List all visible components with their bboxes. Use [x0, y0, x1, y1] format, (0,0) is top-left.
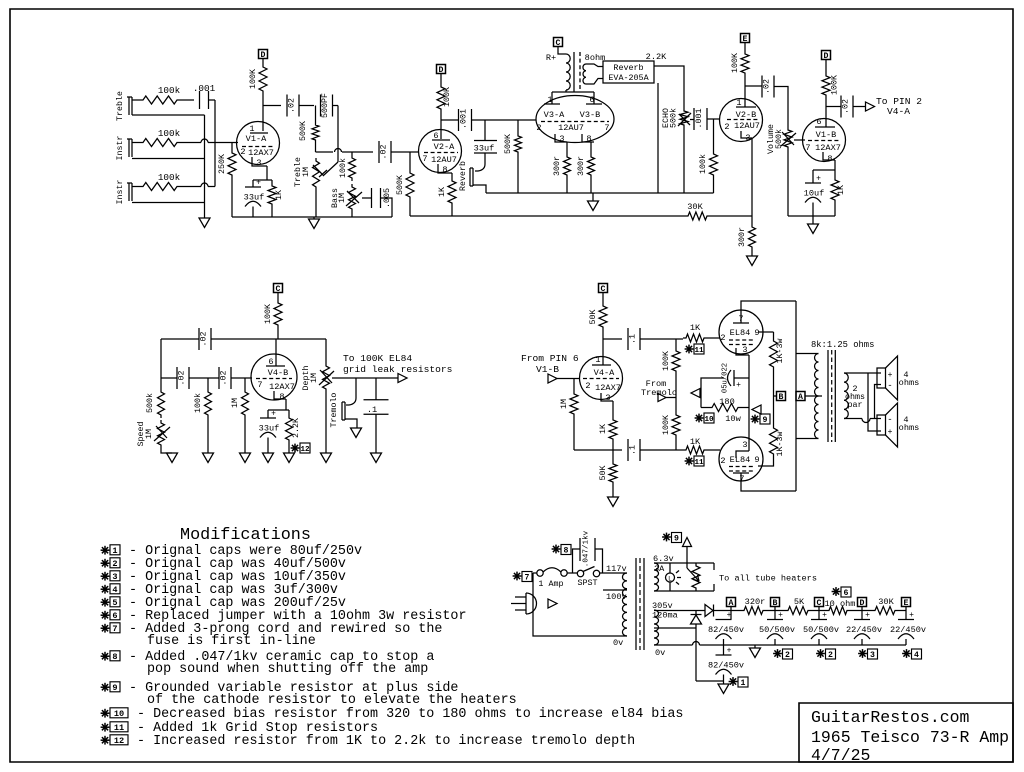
pot Volume 500k: [784, 127, 792, 150]
capacitor 33uf reverb send: [484, 120, 486, 141]
marker 4 mod list: [104, 585, 106, 594]
ground cap2: [723, 681, 725, 684]
resistor 1M V4-A grid: [573, 379, 575, 392]
tube V2-A 12AU7: [419, 130, 462, 173]
capacitor .02 coupling V1-A: [286, 95, 288, 117]
resistor 100K plate V1-B: [822, 73, 830, 98]
svg-text:1M: 1M: [338, 193, 347, 203]
wire .02 to arrow: [853, 106, 866, 108]
tube V2-B 12AU7: [720, 99, 763, 142]
wire V1-B bottom bus: [788, 215, 835, 217]
wire 100K to plate junction V2-B: [744, 76, 746, 107]
marker 7 mod list: [104, 624, 106, 633]
svg-text:6: 6: [844, 589, 849, 598]
wire .001 to V3 grid: [472, 119, 537, 121]
svg-text:100k: 100k: [338, 158, 348, 178]
wire J3 sleeve: [132, 202, 205, 204]
svg-text:- Increased resistor from 1K t: - Increased resistor from 1K to 2.2k to …: [137, 734, 635, 749]
svg-text:2: 2: [720, 333, 725, 343]
marker 2 mod B: [777, 649, 779, 658]
wire .1 to 1K grid stop top: [640, 338, 683, 340]
svg-text:1965 Teisco 73-R Amp: 1965 Teisco 73-R Amp: [811, 728, 1009, 747]
resistor 1K cathode V1-B: [834, 170, 836, 177]
AC plug: [525, 593, 527, 614]
wire rail A-B: [766, 610, 785, 612]
marker 10 mod: [698, 414, 700, 423]
winding 6.3v: [654, 563, 659, 591]
ground .1 tremolo: [371, 453, 382, 463]
wire echo pot to bus: [683, 128, 685, 193]
svg-text:12AX7: 12AX7: [248, 148, 274, 158]
marker 9 mod: [754, 415, 756, 424]
marker 8 mod: [555, 545, 557, 554]
wire doubler to cap2: [696, 680, 724, 682]
svg-text:50/500v: 50/500v: [759, 625, 795, 635]
pot Depth 1M: [325, 339, 327, 363]
svg-text:+: +: [865, 611, 870, 620]
node C supply tremolo: [274, 284, 283, 293]
svg-text:V3-A: V3-A: [544, 110, 565, 120]
svg-text:100K: 100K: [264, 304, 273, 324]
svg-text:250K: 250K: [218, 154, 227, 174]
marker 3 mod D: [862, 649, 864, 658]
wire reverb jack sleeve: [473, 185, 486, 193]
svg-text:.02: .02: [288, 98, 297, 113]
resistor 5K rail: [785, 607, 811, 615]
capacitor .1 PI top: [627, 328, 629, 350]
pot Treble 1M: [313, 158, 320, 190]
resistor 1K cathode V1-A: [271, 180, 273, 183]
capacitor .02 osc 1: [161, 377, 177, 379]
wire D1 to rail: [714, 610, 742, 612]
capacitor 22/450v E: [905, 611, 907, 620]
svg-text:7: 7: [604, 123, 609, 133]
svg-text:-: -: [887, 381, 892, 391]
svg-text:Treble: Treble: [115, 91, 125, 121]
node E rail: [902, 598, 911, 607]
svg-text:6: 6: [816, 117, 821, 127]
svg-text:EVA-205A: EVA-205A: [608, 73, 649, 83]
svg-text:+: +: [736, 381, 741, 390]
wire 1K to EL84 bottom grid: [707, 449, 720, 451]
wire .1 to 1K grid stop bottom: [640, 449, 683, 451]
wire J1 sleeve: [132, 114, 205, 116]
svg-text:100k: 100k: [158, 172, 181, 183]
wire V3-B cathode: [590, 142, 592, 154]
svg-text:EL84: EL84: [730, 328, 751, 338]
svg-text:5: 5: [112, 598, 117, 608]
wire depth pot to ground: [325, 392, 327, 453]
svg-text:2: 2: [828, 651, 833, 660]
resistor 100k input 2: [140, 139, 180, 147]
resistor 100K plate V2-A: [437, 84, 445, 112]
wire doubler down: [695, 628, 697, 681]
wire tank to echo pot: [654, 66, 684, 108]
svg-text:1K: 1K: [275, 190, 284, 200]
pilot lamp: [669, 563, 671, 573]
tube EL84 bottom: [719, 437, 763, 481]
bass wiper: [346, 192, 362, 206]
capacitor .02 tremolo fb: [198, 328, 200, 350]
svg-text:500K: 500K: [396, 175, 405, 195]
capacitor 33uf cathode V4-B: [267, 410, 269, 418]
svg-text:-: -: [887, 415, 892, 425]
jack Tremolo: [355, 378, 357, 398]
resistor 100K plate V2-B: [741, 51, 749, 76]
wire tank return to bus: [657, 83, 659, 193]
wire E to 100K: [744, 43, 746, 52]
svg-text:+: +: [727, 647, 732, 656]
svg-text:100k: 100k: [698, 154, 708, 174]
svg-text:12AU7: 12AU7: [431, 155, 457, 165]
wire parallel minus link: [875, 385, 882, 419]
svg-text:100K: 100K: [662, 351, 671, 371]
wire output plates vertical: [795, 301, 797, 491]
wire volume wiper to V1-B grid: [794, 139, 805, 141]
wire cathode network: [253, 179, 272, 181]
svg-text:120ma: 120ma: [652, 611, 678, 621]
wire rail B-C: [811, 610, 826, 612]
svg-text:SPST: SPST: [577, 578, 597, 588]
marker 8 mod list: [104, 652, 106, 661]
wire .005 to bus: [381, 198, 393, 217]
svg-text:1M: 1M: [560, 399, 569, 409]
resistor 180 bias: [709, 404, 741, 412]
capacitor 50/500v B: [774, 611, 776, 620]
svg-text:100v: 100v: [606, 592, 627, 602]
svg-text:7: 7: [805, 143, 810, 153]
svg-text:8: 8: [112, 652, 117, 662]
reverb transformer secondary: [583, 64, 586, 84]
wire osc cap to grid V4-B: [231, 377, 252, 379]
svg-text:100k: 100k: [158, 85, 181, 96]
svg-text:+: +: [816, 175, 821, 184]
diode D2: [691, 615, 702, 624]
svg-text:2: 2: [785, 651, 790, 660]
svg-text:4/7/25: 4/7/25: [811, 746, 870, 765]
tube EL84 top: [719, 310, 763, 354]
arrow to EL84 grid resistors: [398, 374, 407, 383]
node A plate supply: [796, 392, 805, 401]
capacitor 500PF treble: [320, 95, 322, 117]
speaker top 4 ohms: [877, 368, 886, 388]
resistor 100k tone mix: [351, 152, 353, 155]
capacitor bias bypass 05u/022: [734, 377, 749, 379]
wire treble pot to bus: [315, 190, 317, 217]
svg-text:500k: 500k: [669, 108, 679, 128]
svg-text:2: 2: [536, 123, 541, 133]
wire fuse to switch: [567, 572, 578, 574]
wire V2-A bottom bus: [410, 215, 685, 217]
svg-text:33uf: 33uf: [259, 424, 280, 434]
wire tremolo output: [332, 377, 398, 379]
wire secondary to reverb tank: [586, 64, 603, 67]
svg-text:1K: 1K: [599, 424, 608, 434]
pot Speed 1M: [158, 420, 165, 448]
wire secondary top to speakers: [844, 372, 881, 374]
svg-text:R+: R+: [546, 53, 556, 63]
wire C to 50K: [602, 293, 604, 304]
wire .02 to node: [299, 105, 314, 107]
svg-text:V4-A: V4-A: [594, 368, 615, 378]
svg-text:.047/1kv: .047/1kv: [583, 530, 591, 567]
marker 10 mod list: [104, 709, 106, 718]
svg-text:ohms: ohms: [899, 378, 920, 388]
svg-text:12AX7: 12AX7: [595, 383, 621, 393]
svg-text:8: 8: [564, 547, 569, 556]
svg-text:100K: 100K: [731, 53, 740, 73]
wire .02 to V2-A grid: [391, 151, 419, 153]
svg-text:50K: 50K: [589, 310, 598, 325]
svg-text:500K: 500K: [299, 121, 308, 141]
ground 33uf V4-B: [263, 453, 274, 463]
wire hum pot stem: [686, 547, 688, 569]
resistor 50K tail bottom: [609, 461, 617, 485]
svg-text:82/450v: 82/450v: [708, 625, 744, 635]
svg-text:10 ohm: 10 ohm: [825, 599, 856, 609]
wire plate junction V2-A row: [441, 119, 458, 121]
wire bias cap left: [701, 378, 724, 408]
svg-text:A: A: [798, 393, 803, 402]
marker 4 mod E: [906, 649, 908, 658]
svg-text:100K: 100K: [831, 75, 840, 95]
wire plate lead V4-B: [275, 339, 277, 366]
svg-text:100K: 100K: [443, 87, 452, 107]
svg-text:V2-B: V2-B: [736, 110, 757, 120]
node B rail: [771, 598, 780, 607]
power transformer core: [635, 558, 637, 650]
node B screen supply: [774, 395, 777, 397]
svg-text:fuse is first in-line: fuse is first in-line: [147, 634, 316, 649]
svg-text:3: 3: [870, 651, 875, 660]
node D supply V1-B: [822, 51, 831, 60]
svg-text:2.2K: 2.2K: [292, 418, 301, 438]
svg-text:V1-B: V1-B: [816, 130, 837, 140]
heater bracket: [713, 563, 715, 570]
ground speed pot: [167, 453, 178, 463]
capacitor 33uf cathode V1-A: [252, 180, 254, 187]
title box: [799, 703, 1013, 762]
svg-text:100k: 100k: [158, 128, 181, 139]
svg-text:1M: 1M: [302, 167, 311, 177]
wire V4-A cathode: [612, 401, 614, 417]
svg-text:+: +: [909, 611, 914, 620]
wire tremolo fb row: [161, 338, 199, 340]
resistor 500K V3 grid leak: [517, 120, 519, 133]
svg-text:3A: 3A: [654, 564, 665, 574]
wire tremolo jack ground: [345, 419, 357, 428]
svg-text:1M: 1M: [145, 429, 154, 439]
svg-text:82/450v: 82/450v: [708, 661, 744, 671]
svg-text:To all tube heaters: To all tube heaters: [719, 574, 817, 584]
svg-text:.001: .001: [193, 83, 216, 94]
svg-text:Reverb: Reverb: [613, 63, 643, 73]
wire plate lead V4-A: [602, 339, 604, 365]
svg-text:ohms: ohms: [899, 423, 920, 433]
svg-text:11: 11: [114, 723, 124, 733]
svg-text:6: 6: [112, 611, 117, 621]
jack J3 Instr: [128, 183, 130, 201]
capacitor 10uf cathode V1-B: [812, 170, 814, 183]
resistor 1K-3w top: [773, 332, 775, 338]
wire HV center tap: [654, 627, 696, 629]
svg-text:33uf: 33uf: [244, 193, 265, 203]
svg-text:7: 7: [257, 380, 262, 390]
svg-text:Reverb: Reverb: [458, 161, 468, 191]
resistor 100k input 3: [140, 183, 180, 191]
reverb transformer primary: [566, 54, 570, 90]
svg-text:50/500v: 50/500v: [803, 625, 839, 635]
wire plate junction to .02: [263, 105, 281, 107]
hum wiper: [687, 568, 699, 581]
svg-text:22/450v: 22/450v: [846, 625, 882, 635]
svg-text:V4-A: V4-A: [887, 106, 910, 117]
svg-text:0v: 0v: [655, 648, 665, 658]
wire treble top vertical: [337, 106, 339, 163]
svg-text:1: 1: [112, 546, 117, 556]
svg-text:3: 3: [742, 345, 747, 355]
wire J3 to junction with hop: [180, 186, 201, 188]
wire V4-B cathode: [285, 399, 287, 410]
svg-text:3: 3: [742, 440, 747, 450]
marker 11 mod list: [104, 723, 106, 732]
resistor 300r V3-B: [588, 154, 595, 178]
svg-text:2: 2: [112, 559, 117, 569]
svg-text:2: 2: [720, 456, 725, 466]
tap 100v: [603, 589, 627, 591]
svg-text:1K: 1K: [690, 437, 701, 447]
svg-text:180: 180: [719, 397, 734, 407]
wire D to 100K: [825, 60, 827, 74]
svg-text:7: 7: [525, 574, 530, 583]
resistor 1K cathode V2-A: [448, 178, 456, 206]
wire 100K to plate junction V4-B: [277, 328, 279, 339]
resistor 50K plate V4-A: [599, 303, 607, 330]
wire V1-B cathode: [834, 160, 836, 170]
capacitor 82/450v first: [730, 611, 732, 620]
wire 50K to plate junction: [602, 330, 604, 339]
svg-text:of the cathode resistor to ele: of the cathode resistor to elevate the h…: [147, 693, 517, 708]
ground 100k osc: [203, 453, 214, 463]
marker 11 mod bottom: [688, 457, 690, 466]
node D rail: [858, 598, 867, 607]
wire parallel plus link: [868, 373, 881, 431]
resistor 100K divider top: [675, 339, 677, 348]
svg-text:+: +: [256, 179, 261, 188]
wire 33uf to reverb jack: [484, 153, 486, 164]
resistor 320r rail: [741, 607, 766, 615]
resistor 100K divider bottom: [675, 397, 677, 412]
capacitor .005 bass: [371, 188, 373, 208]
svg-text:2.2K: 2.2K: [646, 52, 667, 62]
OT primary coil: [815, 354, 819, 439]
resistor 1K-3w bottom: [770, 425, 778, 457]
wire heater top: [654, 562, 714, 564]
wire AC neutral: [533, 573, 627, 636]
jack J2 Instr: [128, 139, 130, 157]
marker 6 mod list: [104, 611, 106, 620]
svg-text:12AU7: 12AU7: [558, 123, 584, 133]
wire J2 sleeve: [132, 158, 205, 160]
marker 2 mod C: [820, 649, 822, 658]
marker 3 mod list: [104, 572, 106, 581]
svg-text:300r: 300r: [577, 156, 586, 176]
svg-text:V1-A: V1-A: [246, 134, 267, 144]
svg-text:From PIN 6: From PIN 6: [521, 353, 579, 364]
resistor 1K grid stop top: [683, 334, 707, 342]
wire A to OT center tap: [805, 395, 822, 397]
svg-text:12AX7: 12AX7: [815, 143, 841, 153]
wire J1 tip: [132, 99, 140, 101]
svg-text:8: 8: [827, 154, 832, 164]
capacitor 82/450v second: [723, 645, 725, 655]
wire ground bus V1-A area: [232, 216, 392, 218]
wire J2 tip: [132, 142, 140, 144]
arrow bias left: [691, 389, 700, 398]
svg-text:9: 9: [674, 535, 679, 544]
svg-text:7: 7: [739, 474, 744, 484]
wire osc caps: [189, 377, 219, 379]
svg-text:300r: 300r: [738, 227, 747, 247]
wire .001 to node: [209, 99, 216, 101]
wire 1K to EL84 top grid: [707, 337, 720, 339]
svg-text:9: 9: [763, 416, 768, 425]
svg-text:12AX7: 12AX7: [269, 382, 295, 392]
wire J3 tip: [132, 186, 140, 188]
wire fb cap to plate junction: [211, 338, 326, 340]
svg-text:1K-3w: 1K-3w: [776, 432, 785, 457]
wire 100K to plate junction V1-B: [825, 98, 827, 127]
arrow from tremolo: [658, 394, 666, 402]
resistor 100k osc: [207, 378, 209, 389]
svg-text:Tremolo: Tremolo: [641, 388, 677, 398]
power transformer primary: [622, 573, 627, 636]
wire tremolo in: [666, 397, 676, 399]
wire PI bottom row: [574, 449, 622, 451]
svg-text:+: +: [271, 410, 276, 419]
OT secondary coil: [844, 373, 848, 419]
wire V2-A cathode to 1K: [451, 173, 453, 178]
svg-text:grid leak resistors: grid leak resistors: [343, 364, 452, 375]
OT core: [827, 350, 829, 442]
svg-text:.02: .02: [380, 145, 389, 160]
capacitor .1 tremolo: [375, 378, 377, 400]
svg-text:8k:1.25 ohms: 8k:1.25 ohms: [811, 340, 874, 350]
wire .001 to V2-B grid: [707, 118, 720, 120]
ground tremolo jack: [351, 428, 362, 438]
svg-text:10uf: 10uf: [804, 189, 825, 199]
svg-text:Instr: Instr: [116, 136, 125, 161]
svg-text:.02: .02: [178, 371, 187, 386]
svg-text:par: par: [847, 400, 862, 410]
wire rail C-D: [850, 610, 872, 612]
marker 6 mod: [835, 587, 837, 596]
svg-text:V3-B: V3-B: [580, 110, 601, 120]
svg-text:V4-B: V4-B: [268, 368, 289, 378]
wire plate junction V2-B row: [745, 85, 762, 87]
wire transformer primary to plates: [565, 90, 567, 92]
svg-text:- Decreased bias resistor fro: - Decreased bias resistor from 320 to 18…: [137, 707, 683, 722]
marker 5 mod list: [104, 598, 106, 607]
svg-text:500PF: 500PF: [321, 93, 330, 118]
pot ECHO 500k: [680, 108, 688, 128]
capacitor .02 V1-B out: [840, 96, 842, 118]
svg-text:Instr: Instr: [116, 180, 125, 205]
wire PI top row: [603, 338, 622, 340]
tube V3 12AU7 dual: [536, 96, 614, 143]
svg-text:B: B: [779, 393, 784, 402]
node D supply V1-A: [259, 50, 268, 59]
